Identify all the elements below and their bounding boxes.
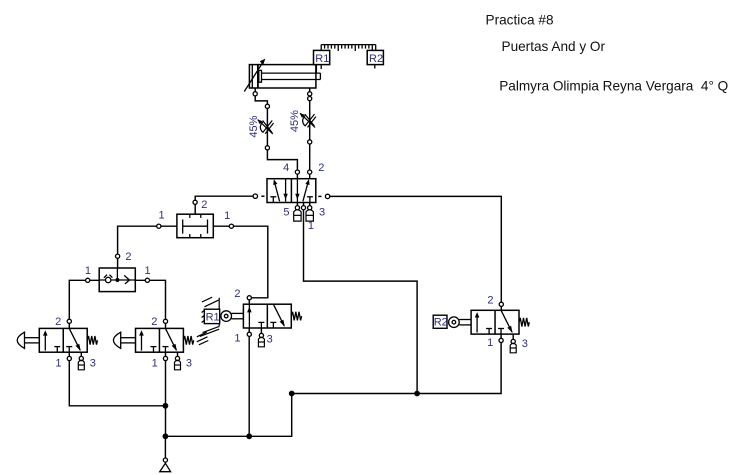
- svg-text:Practica #8: Practica #8: [486, 12, 554, 27]
- svg-text:1: 1: [224, 210, 230, 222]
- svg-text:Puertas And y Or: Puertas And y Or: [502, 39, 606, 54]
- svg-text:45%: 45%: [248, 115, 260, 137]
- svg-text:1: 1: [158, 210, 164, 222]
- svg-text:R2: R2: [369, 53, 383, 65]
- svg-text:1: 1: [55, 358, 61, 370]
- svg-text:3: 3: [186, 358, 192, 370]
- svg-text:3: 3: [319, 206, 325, 218]
- svg-text:R1: R1: [315, 53, 329, 65]
- svg-text:2: 2: [318, 162, 324, 174]
- svg-text:4: 4: [283, 162, 289, 174]
- svg-text:1: 1: [144, 265, 150, 277]
- svg-text:3: 3: [522, 338, 528, 350]
- svg-text:2: 2: [125, 251, 131, 263]
- svg-text:1: 1: [487, 337, 493, 349]
- svg-text:R1: R1: [206, 312, 220, 324]
- svg-text:Palmyra Olimpia Reyna Vergara: Palmyra Olimpia Reyna Vergara 4° Q: [499, 79, 728, 94]
- svg-text:1: 1: [85, 265, 91, 277]
- svg-text:1: 1: [234, 333, 240, 345]
- svg-text:5: 5: [283, 206, 289, 218]
- svg-text:2: 2: [234, 288, 240, 300]
- svg-text:3: 3: [267, 333, 273, 345]
- svg-text:2: 2: [201, 199, 207, 211]
- svg-text:1: 1: [152, 358, 158, 370]
- svg-text:2: 2: [55, 316, 61, 328]
- svg-text:R2: R2: [434, 316, 448, 328]
- svg-text:2: 2: [151, 316, 157, 328]
- svg-text:3: 3: [90, 358, 96, 370]
- svg-text:1: 1: [308, 220, 314, 232]
- svg-text:2: 2: [487, 294, 493, 306]
- svg-text:45%: 45%: [289, 110, 301, 132]
